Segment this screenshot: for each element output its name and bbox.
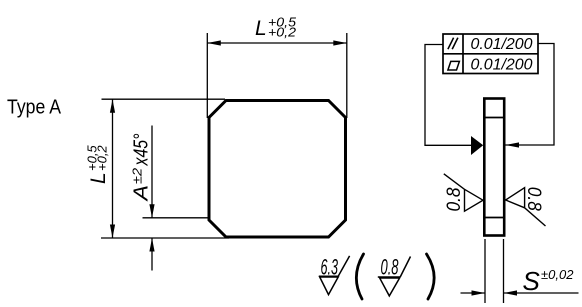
dimension text L +0,5/+0,2 (top) xyxy=(255,15,297,41)
svg-text:+0,2: +0,2 xyxy=(268,25,297,40)
svg-text:0.8: 0.8 xyxy=(444,187,465,211)
extension line left-bottom (height dim) xyxy=(101,237,229,239)
svg-text:6.3: 6.3 xyxy=(321,255,339,280)
svg-text:+0,2: +0,2 xyxy=(95,145,110,171)
svg-text:x45°: x45° xyxy=(131,134,153,167)
extension line left-top (height dim) xyxy=(102,98,226,100)
parenthesis right xyxy=(427,254,435,299)
parallelism symbol xyxy=(448,38,458,50)
datum triangle (filled) xyxy=(471,136,483,155)
extension line top-left (width dim) xyxy=(206,33,208,118)
dimension line S with arrows xyxy=(461,290,579,295)
extension line S left xyxy=(484,239,486,303)
extension line chamfer level xyxy=(143,217,210,219)
leader from frame to datum triangle xyxy=(425,45,471,146)
dimension text S ±0,02 xyxy=(523,266,575,296)
roughness symbol 0.8 on right face (rotated) xyxy=(506,187,546,226)
dimension line L top width xyxy=(207,40,346,45)
flatness symbol xyxy=(448,61,460,70)
roughness symbol 6.3 (general) xyxy=(319,255,350,295)
leader with arrow to right face xyxy=(506,44,555,148)
feature control frame xyxy=(443,34,538,74)
roughness symbol 0.8 on left face (rotated) xyxy=(444,174,483,212)
dimension text A ±2 x45° (rotated) xyxy=(130,134,153,202)
svg-text:L: L xyxy=(87,172,110,184)
extension line top-right (width dim) xyxy=(346,33,348,118)
svg-text:A: A xyxy=(131,185,153,202)
svg-text:Type A: Type A xyxy=(7,97,62,119)
svg-text:0.8: 0.8 xyxy=(523,187,544,211)
svg-text:S: S xyxy=(523,266,541,296)
side view chamfer edge line lower xyxy=(483,217,506,219)
svg-text:±0,02: ±0,02 xyxy=(541,267,574,282)
svg-text:0.01/200: 0.01/200 xyxy=(471,36,533,53)
part outline front view (chamfered square plate) xyxy=(209,101,346,238)
roughness symbol 0.8 (in parentheses) xyxy=(378,255,411,296)
svg-text:0.8: 0.8 xyxy=(381,255,399,280)
dimension line L left height xyxy=(110,99,115,238)
svg-text:L: L xyxy=(255,17,267,40)
svg-text:±2: ±2 xyxy=(130,167,145,184)
extension line S right xyxy=(503,239,505,303)
parenthesis left xyxy=(356,254,363,299)
dimension text L +0,5/+0,2 (left, rotated) xyxy=(85,145,111,184)
dimension line A (chamfer) with arrows xyxy=(149,126,154,271)
side view plate outline xyxy=(484,99,504,236)
svg-text:0.01/200: 0.01/200 xyxy=(471,57,533,74)
side view chamfer edge line upper xyxy=(483,117,506,119)
